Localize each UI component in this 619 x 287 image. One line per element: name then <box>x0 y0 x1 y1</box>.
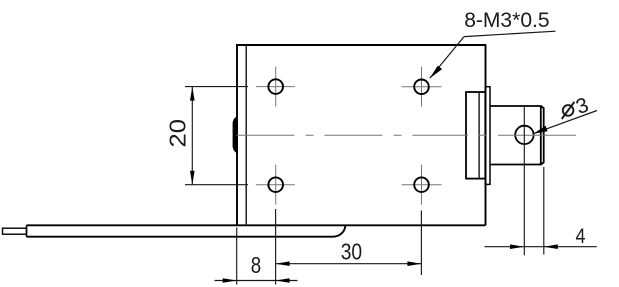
dimension 4: extension line <box>485 167 597 255</box>
dimension 8: extension lines <box>215 209 298 285</box>
plunger <box>490 106 544 165</box>
dimension 30: extension line <box>276 210 422 275</box>
hole H1 (top-left) <box>268 79 283 94</box>
main horizontal centerline <box>237 134 577 136</box>
plunger hole vertical centerline / extension <box>523 107 525 256</box>
leader 8-M3*0.5 <box>430 31 556 78</box>
collar inner line <box>478 93 480 178</box>
hole H4 crosshair (bottom-right) <box>402 165 442 205</box>
hole H1 crosshair (top-left) <box>256 67 295 107</box>
leader diameter 3 arrow <box>533 126 547 134</box>
dimension 4: arrows <box>510 244 524 249</box>
svg-text:4: 4 <box>576 224 586 248</box>
hole H3 crosshair (bottom-left) <box>256 165 295 205</box>
hole H4 (bottom-right) <box>414 177 429 192</box>
bushing <box>485 87 490 185</box>
svg-text:8: 8 <box>251 252 261 278</box>
leader 8-M3*0.5 arrow <box>430 66 442 79</box>
leader diameter 3 <box>534 111 597 134</box>
front collar flange <box>466 92 485 179</box>
solenoid body outline <box>27 44 486 225</box>
wire terminal <box>3 228 27 234</box>
dimension 30: arrows <box>276 261 290 266</box>
dimension 8: arrows <box>223 278 237 283</box>
svg-text:20: 20 <box>165 119 191 148</box>
dimension 20: extension lines <box>185 87 248 185</box>
hole H2 (top-right) <box>414 80 429 95</box>
plunger hole circle <box>515 126 533 144</box>
svg-text:30: 30 <box>341 239 362 265</box>
hole H2 crosshair (top-right) <box>402 67 442 107</box>
lead wire <box>26 225 28 236</box>
label diameter 3 <box>562 102 575 119</box>
weld tab bump on left plate <box>233 117 237 153</box>
dimension 20: arrows <box>190 87 195 101</box>
hole H3 (bottom-left) <box>268 177 283 192</box>
bent base plate with rounded end <box>27 225 346 236</box>
body left inner plate line <box>245 46 247 225</box>
svg-text:8-M3*0.5: 8-M3*0.5 <box>464 8 549 32</box>
